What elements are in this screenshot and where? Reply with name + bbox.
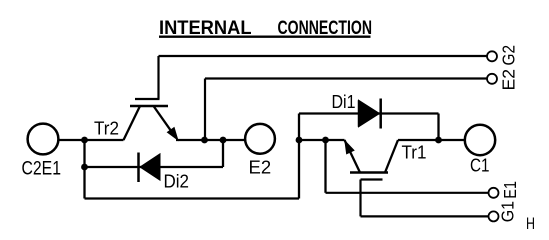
terminal C2E1 — [22, 124, 62, 180]
node dot C2E1 rail — [81, 137, 88, 144]
svg-text:Tr2: Tr2 — [94, 117, 119, 138]
terminal E2 — [245, 124, 275, 178]
wire bottom C2E1 to midcolumn — [85, 197, 300, 199]
node dot Di2 branch junction — [220, 137, 227, 144]
terminal E2 aux — [487, 69, 519, 91]
svg-text:E2: E2 — [249, 157, 272, 178]
node dot Di2 wire — [81, 164, 88, 171]
wire C1 rail — [398, 139, 464, 141]
wire E1 branch vertical — [324, 140, 326, 193]
wire E2aux horizontal — [205, 77, 487, 79]
svg-text:G1: G1 — [498, 201, 518, 222]
wire G1 horizontal — [361, 215, 489, 217]
wire C2E1 branch vertical — [83, 140, 85, 199]
wire Di2 branch vertical — [222, 140, 224, 167]
svg-text:Tr1: Tr1 — [402, 142, 427, 163]
terminal E1 — [489, 181, 521, 199]
svg-text:Di1: Di1 — [332, 91, 356, 112]
wire C2E1 to Tr2 collector — [58, 139, 124, 141]
node dot E2aux junction — [201, 137, 208, 144]
terminal G2 — [487, 45, 519, 66]
diode Di2 — [139, 153, 161, 183]
terminal G1 — [489, 201, 518, 222]
svg-text:Di2: Di2 — [164, 171, 190, 192]
transistor Tr2 — [124, 99, 178, 140]
svg-text:C1: C1 — [470, 154, 490, 175]
wire Di2 horizontal — [85, 166, 224, 168]
wire mid column vertical — [298, 114, 300, 199]
wire Di1 top horizontal — [299, 112, 439, 114]
svg-text:H: H — [526, 214, 535, 233]
wire Tr2 emitter rail — [176, 139, 245, 141]
svg-text:E1: E1 — [500, 181, 520, 199]
transistor Tr1 — [345, 140, 399, 180]
wire E2aux vertical — [204, 79, 206, 141]
wire Di1 right vertical — [437, 114, 439, 141]
node dot C1 rail — [435, 137, 442, 144]
title INTERNAL CONNECTION — [159, 17, 372, 39]
wire G2 vertical to Tr2 gate — [157, 56, 159, 99]
svg-text:G2: G2 — [499, 45, 519, 66]
wire mid to Tr1 emitter — [299, 139, 345, 141]
wire Tr1 gate vertical — [359, 180, 361, 217]
svg-text:C2E1: C2E1 — [22, 159, 62, 180]
wire E1 horizontal — [326, 192, 489, 194]
diode Di1 — [359, 99, 381, 129]
node dot Tr1 emitter — [322, 137, 329, 144]
node dot mid column — [296, 137, 303, 144]
terminal C1 — [465, 125, 495, 176]
svg-text:E2: E2 — [499, 69, 519, 91]
wire G2 horizontal — [159, 55, 487, 57]
